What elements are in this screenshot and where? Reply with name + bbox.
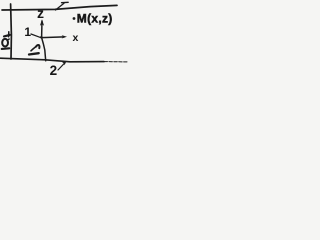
node axis x arrowhead bbox=[62, 35, 67, 38]
wire top leader mark diagonal bbox=[56, 3, 65, 10]
node origin ink blob bbox=[40, 36, 43, 39]
node axis z line bbox=[42, 21, 46, 61]
wire top boundary line bbox=[2, 5, 117, 10]
label b rotated stem stroke bbox=[2, 47, 10, 50]
label h rotated stem stroke bbox=[29, 53, 39, 54]
svg-text:x: x bbox=[73, 32, 79, 44]
svg-text:M(x,z): M(x,z) bbox=[77, 11, 113, 25]
node axis x line bbox=[42, 36, 64, 39]
wire leader from 1 bbox=[31, 34, 40, 37]
node point M dot bbox=[73, 17, 76, 20]
wire top leader mark horizontal bbox=[62, 1, 69, 3]
label b rotated tail tick bbox=[7, 39, 9, 40]
label t subscript rotated bar bbox=[4, 35, 10, 37]
svg-text:1: 1 bbox=[24, 25, 31, 39]
wire left vertical edge bbox=[10, 4, 13, 59]
wire bottom line faded right part bbox=[104, 61, 127, 63]
label b rotated bowl on left edge bbox=[2, 39, 8, 47]
label h rotated arch leg bbox=[36, 45, 40, 48]
svg-text:2: 2 bbox=[50, 63, 58, 78]
wire leader from 2 bbox=[58, 63, 65, 70]
wire bottom boundary line bbox=[0, 58, 104, 62]
label t subscript rotated cross bbox=[8, 32, 10, 37]
node axis z arrowhead bbox=[40, 19, 44, 26]
label h rotated arch curve bbox=[31, 47, 36, 51]
node leader 2 arrowhead bbox=[62, 61, 67, 65]
svg-text:z: z bbox=[37, 5, 44, 21]
